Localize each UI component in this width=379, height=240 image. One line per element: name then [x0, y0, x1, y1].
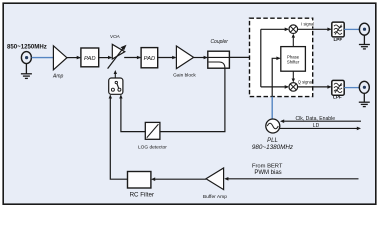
- svg-text:Amp: Amp: [52, 74, 64, 80]
- mixer MX2 (Q): [289, 83, 298, 92]
- svg-text:LPF: LPF: [333, 95, 342, 100]
- wire phase shifter to mixer Q: [292, 71, 294, 81]
- svg-text:VOA: VOA: [110, 34, 120, 39]
- node Q signal: [298, 79, 312, 85]
- detector LOG: [145, 122, 160, 139]
- wire coupler tap to LOG detector: [160, 68, 225, 131]
- ground (J3): [359, 93, 370, 106]
- connector J2 (I out): [359, 23, 369, 35]
- svg-text:Buffer Amp: Buffer Amp: [203, 194, 227, 200]
- svg-text:I signal: I signal: [301, 21, 314, 26]
- node RF split: [260, 29, 262, 87]
- wire LOG detector to switch: [121, 96, 145, 132]
- wire input to amp (blue): [32, 57, 54, 59]
- wire LPF1 to J2 (blue): [344, 28, 359, 30]
- wire switch to VOA control: [114, 72, 116, 78]
- wire VOA to PAD2: [124, 57, 140, 59]
- wire amp to PAD1: [67, 57, 80, 59]
- svg-text:Q signal: Q signal: [298, 79, 313, 84]
- svg-text:850~1250MHz: 850~1250MHz: [7, 43, 47, 50]
- oscillator PLL: [266, 119, 280, 133]
- svg-text:Phase: Phase: [287, 54, 300, 59]
- op-amp U1 Amp: [53, 46, 67, 70]
- node I signal: [300, 20, 314, 26]
- attenuator VOA: [112, 44, 125, 59]
- wire PLL to demod (blue LO): [271, 97, 273, 120]
- svg-text:LPF: LPF: [333, 37, 342, 42]
- filter LPF1: [332, 22, 344, 37]
- wire PWM bias input: [226, 178, 359, 180]
- switch SW1 (VOA control select): [109, 78, 123, 94]
- ground (input): [21, 64, 32, 79]
- wire PAD1 to VOA: [99, 57, 112, 59]
- connector J3 (Q out): [359, 81, 369, 93]
- wire gain block to coupler: [194, 57, 207, 59]
- demodulator dashed box: [250, 18, 313, 96]
- phase shifter U4: [281, 47, 306, 72]
- wire PAD2 to gain block: [158, 57, 176, 59]
- wire LD from PLL: [280, 127, 360, 129]
- svg-text:LOG detector: LOG detector: [138, 144, 167, 150]
- op-amp U5 Buffer Amp: [206, 168, 224, 190]
- attenuator PAD2: [141, 48, 158, 68]
- wire LO feed to phase shifter: [272, 58, 279, 96]
- svg-text:Clk, Data, Enable: Clk, Data, Enable: [295, 116, 335, 122]
- svg-text:PAD: PAD: [144, 56, 156, 62]
- wire phase shifter to mixer I: [292, 35, 294, 46]
- filter LPF2: [332, 80, 344, 95]
- mixer MX1 (I): [289, 25, 298, 34]
- svg-text:LD: LD: [313, 123, 320, 129]
- wire Clk Data Enable to PLL: [282, 120, 362, 122]
- wire mixer I to LPF1: [298, 28, 331, 30]
- svg-text:RC Filter: RC Filter: [130, 192, 154, 199]
- op-amp U2 Gain block: [176, 46, 193, 69]
- wire to mixer I: [261, 28, 288, 30]
- connector J1 (RF input): [21, 52, 31, 64]
- wire mixer Q to LPF2: [298, 86, 331, 88]
- wire coupler to demod box: [229, 56, 260, 58]
- wire to mixer Q: [261, 86, 288, 88]
- svg-text:Shifter: Shifter: [287, 60, 300, 65]
- svg-text:Coupler: Coupler: [210, 39, 228, 45]
- svg-text:Gain block: Gain block: [173, 73, 196, 79]
- svg-text:980~1380MHz: 980~1380MHz: [252, 144, 294, 151]
- wire LPF2 to J3 (blue): [344, 87, 359, 89]
- wire buffer amp to RC filter: [153, 178, 207, 180]
- filter RC: [128, 172, 151, 189]
- ground (J2): [359, 35, 370, 49]
- coupler U3: [208, 51, 230, 68]
- svg-text:PAD: PAD: [84, 56, 96, 62]
- attenuator PAD1: [81, 48, 99, 67]
- wire RC filter to switch: [110, 96, 127, 180]
- svg-text:PWM bias: PWM bias: [254, 170, 281, 176]
- svg-text:From BERT: From BERT: [252, 163, 283, 169]
